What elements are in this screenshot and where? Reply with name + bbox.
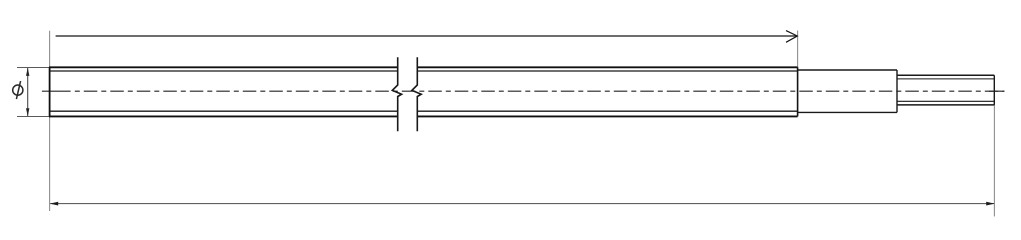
diameter dimension line: [27, 68, 29, 116]
top dimension line: [56, 35, 797, 37]
centerline first long dash: [42, 90, 71, 92]
shaft top edge (right of break): [417, 66, 797, 68]
shoulder face: [797, 67, 799, 116]
break line left: [392, 57, 401, 131]
thread major line bottom: [897, 104, 994, 106]
second section end face: [896, 70, 898, 112]
shaft right end face: [993, 75, 995, 105]
shaft bottom edge (right of break): [417, 115, 797, 117]
diameter extension line bottom: [17, 116, 50, 118]
break line right: [412, 57, 421, 131]
diameter symbol: [13, 81, 23, 99]
extension line left: [49, 31, 51, 211]
bottom dimension line: [50, 203, 994, 205]
diameter extension line top: [17, 67, 50, 69]
shaft top edge (left of break): [49, 66, 398, 68]
centerline end dash: [989, 90, 1004, 92]
diameter dimension arrow down: [26, 108, 29, 116]
extension line at shoulder: [797, 31, 799, 68]
chamfer line bottom (left of break): [50, 110, 398, 112]
diameter dimension arrow up: [26, 68, 29, 76]
chamfer line top (right of break): [417, 70, 797, 72]
bottom dimension arrow right: [986, 202, 994, 206]
thread minor line bottom: [897, 100, 994, 102]
shaft left end face: [49, 67, 51, 116]
thread major line top: [897, 74, 994, 76]
centerline: [75, 90, 1005, 92]
second section bottom edge: [798, 111, 897, 113]
chamfer line bottom (right of break): [417, 110, 797, 112]
top dimension open arrowhead: [786, 31, 797, 43]
thread minor line top: [897, 78, 994, 80]
shaft bottom edge (left of break): [49, 115, 398, 117]
second section top edge: [798, 69, 897, 71]
chamfer line top (left of break): [50, 70, 398, 72]
extension line right: [993, 105, 995, 216]
bottom dimension arrow left: [50, 202, 58, 206]
